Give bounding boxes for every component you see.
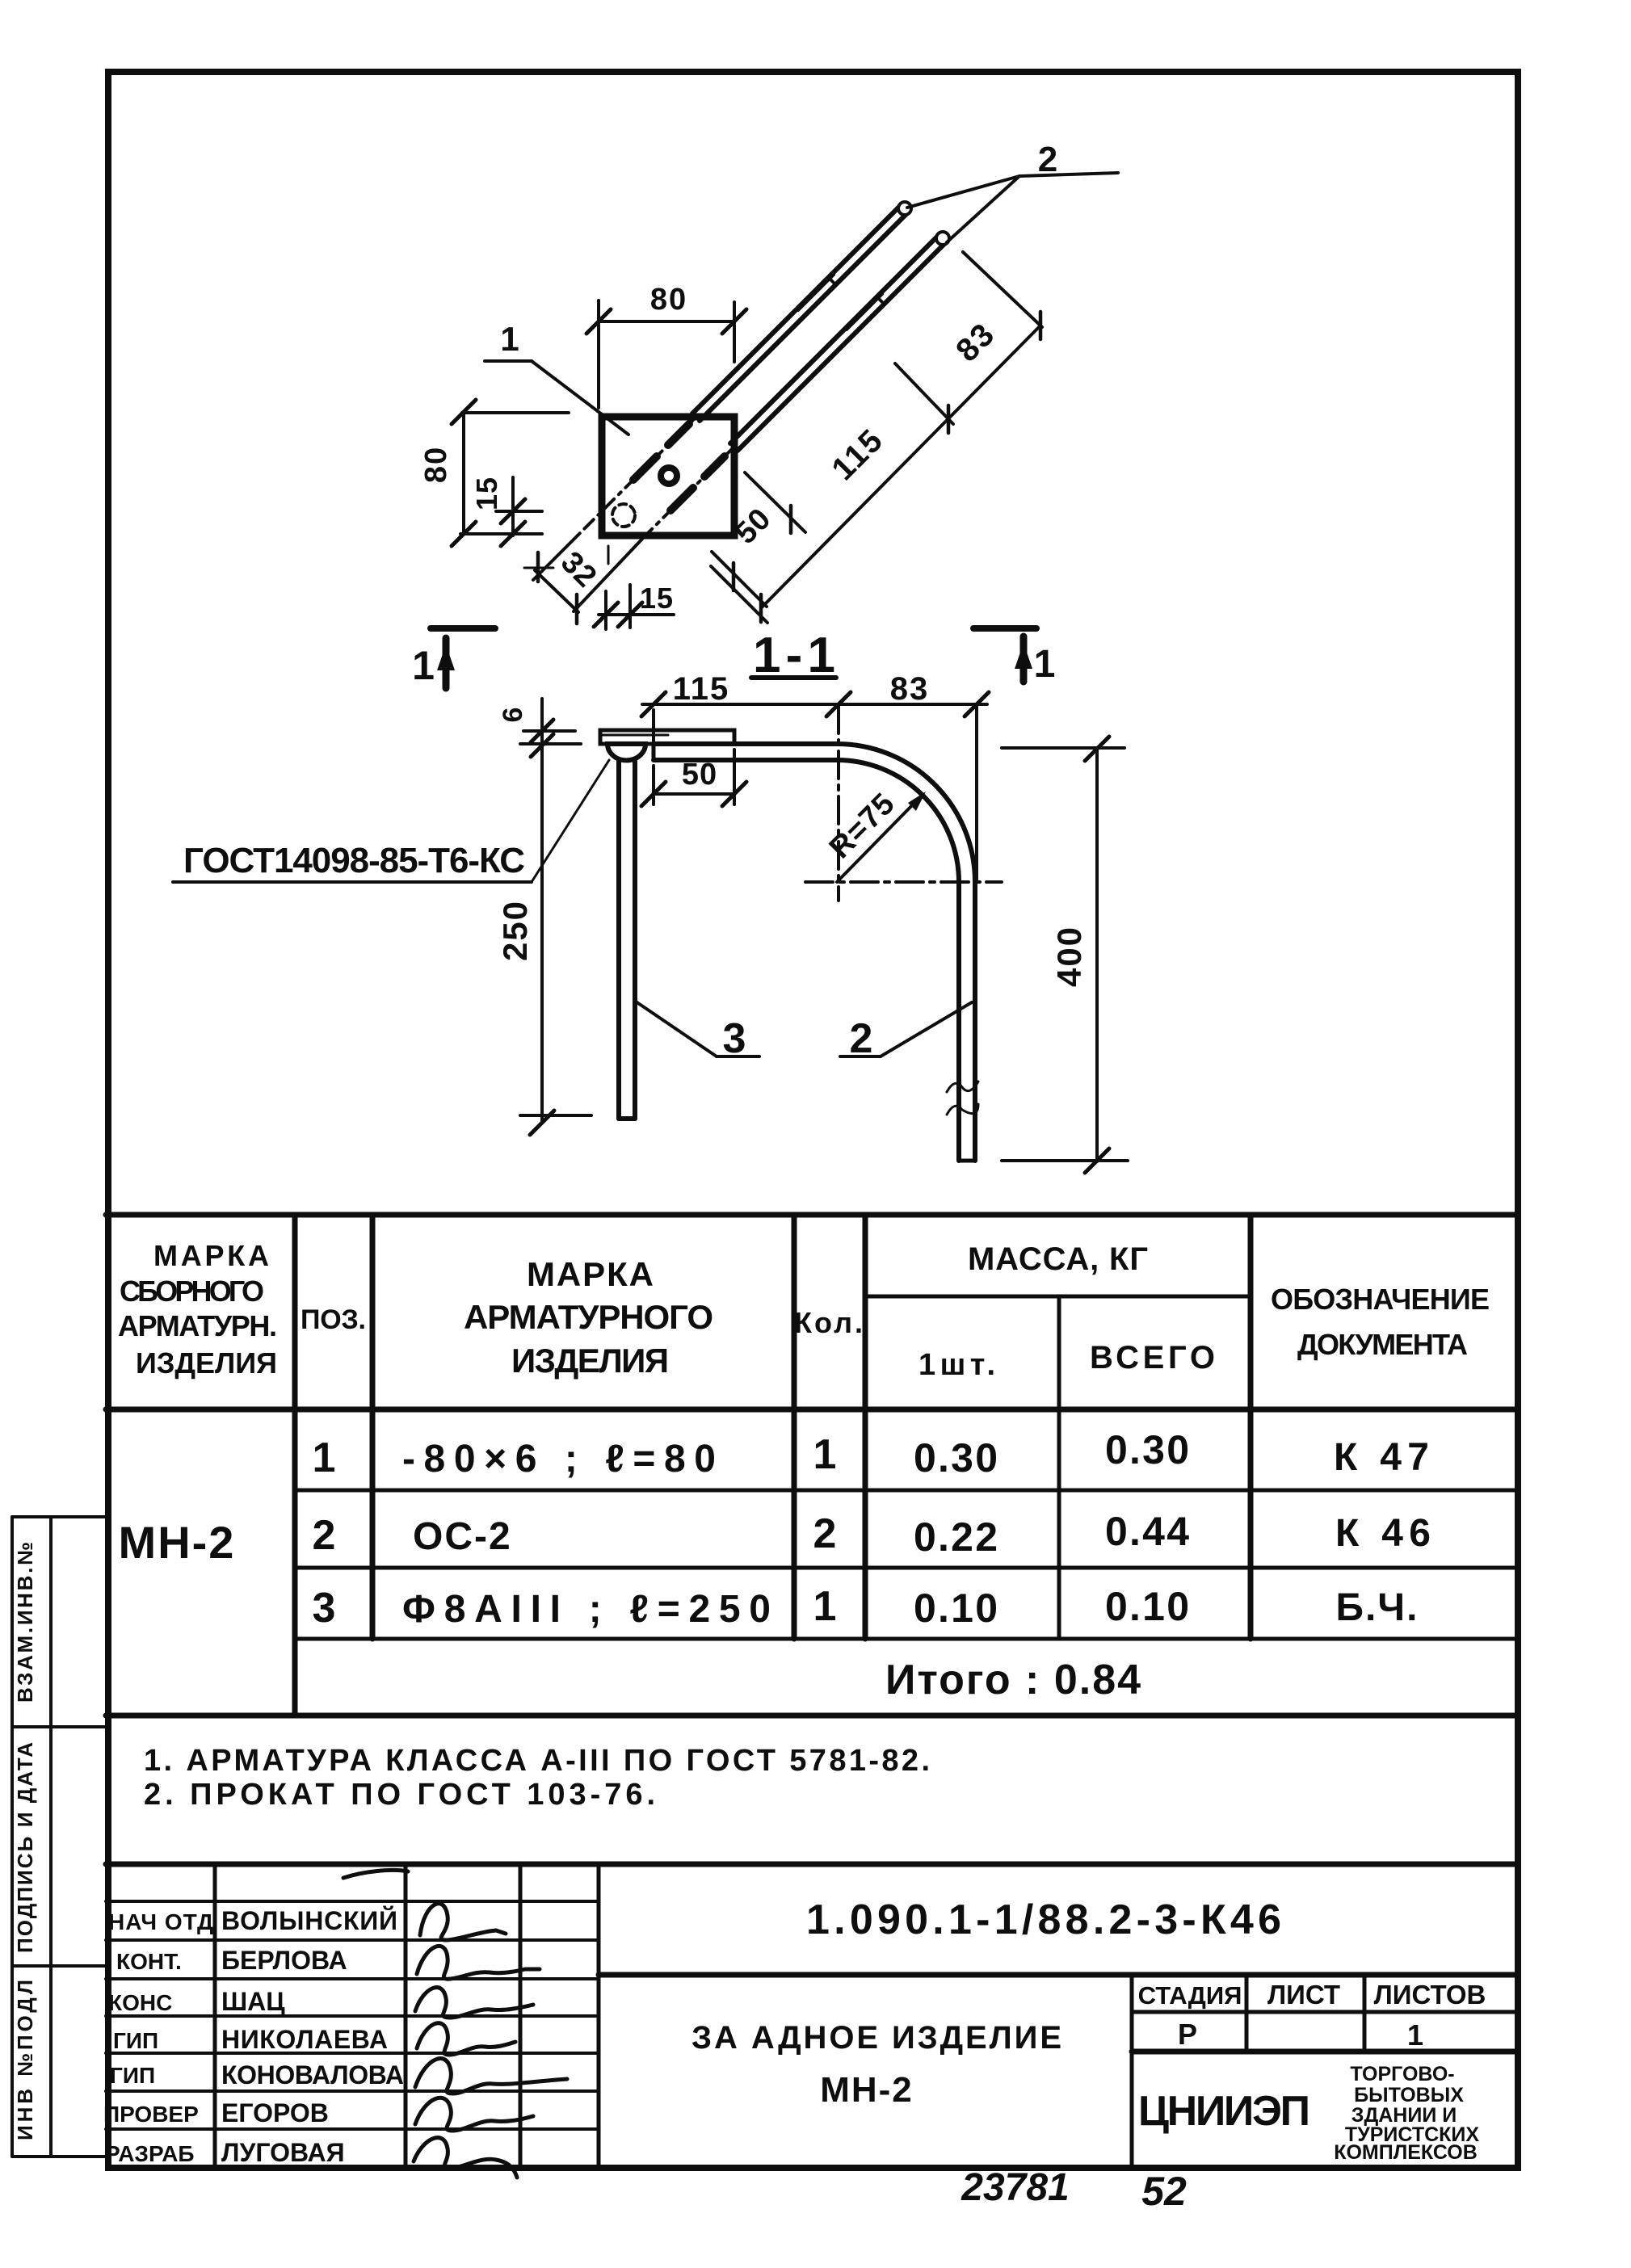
svg-text:Ф8АIII ; ℓ=250: Ф8АIII ; ℓ=250 [402,1588,772,1631]
dimension 80 left (plan) [452,400,569,546]
svg-text:50: 50 [682,758,717,792]
svg-text:ГИП: ГИП [110,2063,155,2088]
svg-text:ОС-2: ОС-2 [413,1515,512,1558]
svg-text:КОМПЛЕКСОВ: КОМПЛЕКСОВ [1334,2141,1478,2164]
rod 2 lower axis line [574,447,734,611]
svg-text:115: 115 [825,422,890,487]
rod item 2 upper (plan view) [692,202,911,421]
svg-text:СБОРНОГО: СБОРНОГО [120,1275,265,1308]
svg-text:3: 3 [723,1015,746,1062]
svg-text:МАРКА: МАРКА [153,1239,270,1272]
section cut mark left [431,628,495,688]
org small text [1334,2063,1479,2164]
svg-text:1. АРМАТУРА КЛАССА А-III ПО ГО: 1. АРМАТУРА КЛАССА А-III ПО ГОСТ 5781-82… [144,1744,931,1778]
dimension 250 (section) [520,699,591,1135]
svg-text:80: 80 [419,446,453,483]
svg-text:ИНВ №ПОДЛ: ИНВ №ПОДЛ [13,1979,37,2140]
svg-text:0.10: 0.10 [1105,1584,1191,1629]
section cut mark right [973,628,1036,682]
svg-text:К 46: К 46 [1335,1512,1432,1555]
svg-text:1.090.1-1/88.2-3-К46: 1.090.1-1/88.2-3-К46 [806,1896,1283,1943]
svg-text:ПРОВЕР: ПРОВЕР [103,2102,199,2127]
svg-text:ГИП: ГИП [113,2028,158,2053]
svg-text:ИЗДЕЛИЯ: ИЗДЕЛИЯ [511,1342,670,1380]
plate item 1 (plan view) [602,417,734,535]
subject cell text [691,2020,1063,2110]
table header texts [118,1239,1490,1382]
svg-text:15: 15 [470,477,503,510]
svg-text:МН-2: МН-2 [119,1517,236,1568]
strip label INV N PODL [13,1979,37,2140]
strip label PODPIS I DATA [13,1741,37,1953]
dimension 50 (section) [641,750,746,806]
svg-text:ЗА АДНОЕ ИЗДЕЛИЕ: ЗА АДНОЕ ИЗДЕЛИЕ [691,2020,1063,2056]
svg-text:ПОЗ.: ПОЗ. [301,1304,367,1335]
specification table grid [106,1215,1517,1716]
svg-text:2: 2 [813,1510,839,1557]
svg-text:0.10: 0.10 [914,1585,999,1631]
svg-text:1: 1 [313,1434,338,1481]
svg-text:РАЗРАБ: РАЗРАБ [105,2141,195,2166]
svg-text:1-1: 1-1 [753,628,837,683]
svg-text:80: 80 [650,283,687,317]
svg-text:ШАЦ: ШАЦ [221,1987,285,2016]
svg-text:1: 1 [813,1431,839,1478]
svg-text:2. ПРОКАТ ПО ГОСТ 103-76.: 2. ПРОКАТ ПО ГОСТ 103-76. [144,1778,657,1812]
dimension 50 (plan) [712,472,805,607]
table data texts [119,1427,1432,1703]
stage cells [1138,1980,1486,2052]
svg-text:ИЗДЕЛИЯ: ИЗДЕЛИЯ [136,1346,278,1380]
svg-text:6: 6 [498,708,528,723]
svg-text:КОНС: КОНС [108,1990,172,2015]
svg-text:83: 83 [890,671,930,707]
svg-text:15: 15 [640,582,674,615]
svg-text:КОНОВАЛОВА: КОНОВАЛОВА [221,2060,404,2089]
svg-text:0.30: 0.30 [914,1435,999,1480]
svg-text:БЕРЛОВА: БЕРЛОВА [221,1946,347,1975]
svg-text:МАРКА: МАРКА [527,1255,654,1293]
svg-text:1шт.: 1шт. [918,1348,996,1382]
svg-text:НАЧ ОТД: НАЧ ОТД [108,1909,213,1934]
svg-text:ЕГОРОВ: ЕГОРОВ [221,2098,329,2127]
rod item 2 lower (plan view) [730,232,949,451]
rod item 2 (section) [654,744,975,1161]
title block grid [106,1864,1517,2052]
dimension 6 (section) [523,720,575,757]
section title 1-1 [753,628,837,683]
svg-text:1: 1 [1407,2018,1423,2052]
svg-text:115: 115 [673,671,730,707]
svg-text:СТАДИЯ: СТАДИЯ [1138,1981,1242,2010]
radius R=75 leader (section) [837,792,926,882]
svg-text:КОНТ.: КОНТ. [116,1949,182,1974]
svg-text:АРМАТУРНОГО: АРМАТУРНОГО [464,1298,714,1336]
svg-text:ВСЕГО: ВСЕГО [1090,1340,1216,1375]
org name [1138,2088,1311,2135]
dimension 32 (plan) [524,552,578,624]
strip label VZAM.INV.N [13,1541,37,1703]
svg-text:БЫТОВЫХ: БЫТОВЫХ [1354,2084,1464,2106]
svg-text:ЛИСТ: ЛИСТ [1267,1980,1340,2010]
svg-text:ГОСТ14098-85-Т6-КС: ГОСТ14098-85-Т6-КС [183,841,526,880]
dimension 83 / 115 (plan) [711,252,1042,623]
rod 2 upper hidden dashes inside plate [633,424,689,480]
weld bead [607,744,645,760]
hole ring in plate [661,468,677,484]
svg-text:ЛУГОВАЯ: ЛУГОВАЯ [221,2138,345,2167]
rod 2 upper axis line [533,417,696,580]
svg-text:ЛИСТОВ: ЛИСТОВ [1374,1980,1486,2010]
rod 2 lower hidden dashes inside plate [670,456,725,510]
svg-text:1: 1 [412,643,435,688]
leader position 3 (section) [636,1002,759,1056]
svg-text:МАССА, КГ: МАССА, КГ [968,1241,1149,1277]
svg-text:Кол.: Кол. [794,1306,864,1339]
svg-text:ДОКУМЕНТА: ДОКУМЕНТА [1297,1328,1469,1361]
title block left labels [103,1909,213,2166]
svg-text:Б.Ч.: Б.Ч. [1336,1586,1419,1629]
svg-text:ЦНИИЭП: ЦНИИЭП [1138,2088,1311,2135]
leader position 2 (section) [840,1002,972,1056]
signatures [343,1870,567,2178]
svg-text:Р: Р [1178,2018,1197,2051]
svg-text:АРМАТУРН.: АРМАТУРН. [118,1309,278,1342]
bar item 3 (section) [619,761,635,1119]
rod break marks (section) [947,1081,978,1115]
plate item 1 (section) [600,730,734,744]
dimension 115 / 83 (section) [641,692,989,880]
dimension 15 bottom (plan) [594,585,674,629]
svg-text:52: 52 [1141,2169,1187,2214]
svg-text:НИКОЛАЕВА: НИКОЛАЕВА [221,2025,388,2054]
notes [144,1744,931,1812]
svg-text:ОБОЗНАЧЕНИЕ: ОБОЗНАЧЕНИЕ [1271,1283,1490,1316]
archive numbers handwriting [961,2166,1187,2214]
svg-text:83: 83 [949,316,1002,368]
svg-text:ТОРГОВО-: ТОРГОВО- [1350,2063,1454,2085]
title block names [221,1906,404,2167]
svg-text:1: 1 [813,1583,839,1630]
svg-text:1: 1 [500,320,519,358]
sheet border frame [108,72,1518,2168]
svg-text:2: 2 [1038,140,1057,179]
svg-text:ВЗАМ.ИНВ.№: ВЗАМ.ИНВ.№ [13,1541,37,1703]
dimension 400 (section) [1002,737,1128,1173]
weld designation leader [173,760,609,882]
svg-text:0.30: 0.30 [1105,1427,1191,1472]
svg-text:1: 1 [1034,643,1056,686]
svg-text:К 47: К 47 [1334,1436,1431,1479]
svg-text:Итого : 0.84: Итого : 0.84 [885,1657,1142,1703]
svg-text:-80×6 ; ℓ=80: -80×6 ; ℓ=80 [402,1438,717,1480]
inventory strip (left margin table) [12,1517,106,2157]
svg-text:3: 3 [313,1585,338,1632]
svg-text:0.22: 0.22 [914,1514,999,1560]
svg-text:ПОДПИСЬ И ДАТА: ПОДПИСЬ И ДАТА [13,1741,37,1953]
svg-text:2: 2 [850,1015,873,1062]
dimension 80 top (plan) [586,300,746,408]
svg-text:400: 400 [1050,926,1088,987]
arc center lines (section) [805,706,1002,901]
svg-text:ВОЛЫНСКИЙ: ВОЛЫНСКИЙ [221,1906,397,1935]
leader position 2 (plan) [907,173,1118,242]
svg-text:2: 2 [313,1512,338,1559]
dimension 15 left (plan) [496,477,542,546]
dashed circle in plate [608,504,635,564]
svg-text:МН-2: МН-2 [820,2070,914,2110]
document number [806,1896,1283,1943]
leader position 1 (plan) [485,361,628,435]
svg-text:0.44: 0.44 [1105,1509,1191,1554]
svg-text:23781: 23781 [961,2166,1069,2209]
svg-text:250: 250 [496,900,534,961]
